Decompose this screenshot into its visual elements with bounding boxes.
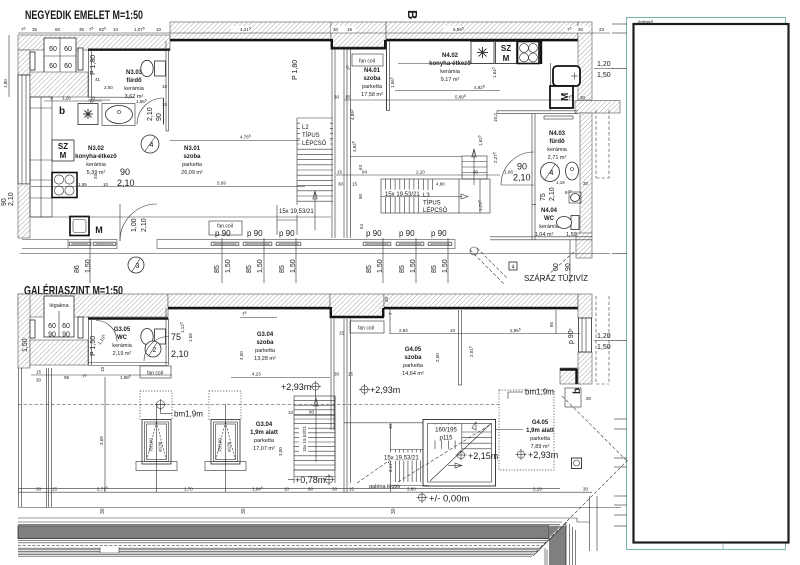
stair G3 treads	[294, 396, 335, 470]
dim verticals upper row	[90, 238, 570, 283]
stair G4 diagonals	[398, 422, 492, 482]
svg-text:bm1,9m: bm1,9m	[525, 388, 554, 397]
svg-text:78/160: 78/160	[218, 438, 223, 452]
svg-text:10,2: 10,2	[493, 113, 498, 122]
svg-text:30: 30	[36, 487, 42, 492]
dim row g405	[384, 296, 580, 334]
svg-text:30: 30	[586, 396, 592, 401]
lower right exterior wall	[578, 294, 592, 318]
window jamb left	[30, 52, 35, 70]
svg-text:p 90: p 90	[279, 229, 295, 238]
svg-text:p 90: p 90	[215, 229, 231, 238]
parapet rail panels	[69, 242, 452, 246]
svg-text:szoba: szoba	[183, 154, 201, 160]
svg-text:60: 60	[48, 323, 56, 330]
svg-text:parketta: parketta	[182, 162, 203, 168]
section circle 3	[128, 257, 144, 273]
top wall band left section	[18, 35, 170, 50]
dashed verticals right margin upper	[596, 110, 609, 178]
svg-text:p 90: p 90	[399, 229, 415, 238]
wc G305 door	[144, 337, 169, 362]
parapet band a	[68, 240, 117, 249]
dim 164 vertical	[491, 67, 497, 78]
svg-text:kerámia: kerámia	[124, 86, 145, 92]
wc N404 basin	[569, 192, 581, 203]
svg-text:60: 60	[64, 63, 72, 70]
svg-text:+2,15m: +2,15m	[468, 451, 498, 461]
svg-text:1,50: 1,50	[442, 259, 449, 273]
bath N303 wc	[141, 60, 166, 76]
svg-text:parketta: parketta	[362, 84, 383, 90]
svg-text:2,00: 2,00	[104, 85, 113, 90]
svg-text:P 1,50: P 1,50	[90, 336, 97, 356]
band mitre joint	[532, 522, 567, 556]
svg-text:3,80: 3,80	[407, 487, 416, 492]
lower right corner wall	[560, 368, 578, 384]
svg-text:5,69: 5,69	[217, 181, 226, 186]
svg-text:78/160: 78/160	[149, 438, 154, 452]
top dim number masks	[231, 26, 608, 33]
titleblock black sheet	[634, 24, 789, 543]
top dim row	[18, 26, 610, 33]
top wall band mid section	[170, 22, 331, 40]
level 293 left	[281, 381, 321, 399]
svg-text:S: S	[50, 96, 53, 101]
galeria diagonal	[357, 460, 390, 483]
svg-text:10: 10	[113, 27, 119, 32]
titleblock teal frame	[627, 18, 786, 550]
title gallery level	[24, 283, 123, 298]
stair G4 riser text	[384, 423, 421, 472]
svg-text:10: 10	[388, 423, 393, 429]
bm19 right label	[508, 388, 554, 400]
svg-text:szoba: szoba	[363, 76, 381, 82]
kitchen N402 counter line	[398, 63, 537, 65]
level mark upper right	[594, 61, 613, 79]
svg-text:1,26: 1,26	[62, 96, 71, 101]
svg-text:1,50: 1,50	[597, 344, 611, 351]
svg-text:30: 30	[384, 296, 389, 302]
dry riser corner leader	[540, 252, 574, 282]
svg-text:30: 30	[583, 487, 589, 492]
svg-text:14,64 m²: 14,64 m²	[402, 371, 424, 377]
top wall band right section	[386, 22, 578, 40]
svg-text:+0,78m: +0,78m	[295, 475, 325, 485]
svg-text:NEGYEDIK EMELET M=1:50: NEGYEDIK EMELET M=1:50	[25, 8, 143, 22]
svg-text:b: b	[59, 106, 65, 117]
svg-text:10: 10	[156, 27, 162, 32]
svg-text:26,09 m²: 26,09 m²	[181, 170, 203, 176]
stair L2 arrow	[313, 191, 317, 230]
left margin door dims	[1, 192, 15, 206]
svg-text:90: 90	[48, 332, 56, 339]
svg-text:30: 30	[36, 378, 42, 383]
stair L2 landing	[277, 205, 297, 235]
wc N404 north wall	[532, 156, 536, 240]
svg-text:LÉPCSŐ: LÉPCSŐ	[423, 207, 448, 214]
svg-text:10: 10	[284, 487, 290, 492]
svg-text:2,10: 2,10	[141, 218, 148, 232]
svg-text:p 905: p 905	[568, 328, 575, 344]
svg-text:TÍPUS: TÍPUS	[302, 132, 320, 139]
headroom dashed line	[18, 404, 499, 406]
svg-text:P 1,80: P 1,80	[90, 55, 97, 75]
svg-text:N4.01: N4.01	[364, 68, 381, 74]
window jamb mid	[78, 48, 83, 70]
svg-text:30: 30	[333, 27, 339, 32]
svg-text:15: 15	[349, 487, 355, 492]
dim line 589	[334, 94, 573, 100]
svg-text:M: M	[503, 54, 510, 63]
svg-text:85: 85	[279, 265, 286, 273]
svg-text:2,10: 2,10	[147, 107, 154, 121]
bath N303 west wall	[89, 50, 92, 97]
stair L2 riser text	[278, 205, 330, 215]
dim line 492	[395, 84, 500, 90]
svg-text:kerámia: kerámia	[112, 343, 133, 349]
lower left wall verticals	[19, 368, 52, 507]
lower top band right section	[384, 294, 578, 308]
dry riser double leader	[470, 248, 508, 284]
svg-text:b: b	[572, 388, 583, 394]
section tick 30 mid	[241, 508, 247, 514]
svg-text:2,50: 2,50	[239, 351, 244, 360]
stair G4 outer box	[423, 420, 496, 487]
svg-text:85: 85	[399, 265, 406, 273]
stair L3 treads	[381, 179, 490, 213]
svg-text:2,19: 2,19	[533, 487, 542, 492]
kitchen N302 label	[75, 146, 117, 176]
bath N403 west wall	[532, 114, 535, 156]
svg-text:15x 19,53/21: 15x 19,53/21	[279, 209, 314, 215]
headroom zone g405	[499, 390, 554, 470]
svg-text:85: 85	[366, 265, 373, 273]
svg-text:+2,93m: +2,93m	[281, 382, 311, 392]
svg-text:90: 90	[517, 162, 527, 172]
room G405 label	[402, 347, 424, 377]
dry riser diagonal lower	[562, 396, 627, 461]
svg-text:1,50: 1,50	[22, 338, 29, 352]
svg-text:3: 3	[136, 263, 140, 270]
dim row above fridge	[44, 96, 102, 102]
dry riser diagonal at bottom	[536, 459, 629, 552]
left wall window strip	[18, 75, 30, 184]
door arc N302	[120, 204, 157, 241]
right wall corner piece	[576, 233, 592, 258]
svg-text:80: 80	[55, 27, 61, 32]
bath N303 washbasin	[102, 104, 135, 126]
svg-text:30: 30	[334, 95, 340, 100]
svg-text:30: 30	[473, 170, 479, 175]
hatched pier below shaft	[30, 72, 88, 97]
dim 156 vertical	[389, 77, 395, 88]
svg-text:ø130: ø130	[158, 441, 163, 452]
svg-text:85: 85	[214, 265, 221, 273]
svg-text:30: 30	[334, 372, 340, 377]
stair G3 landing	[294, 396, 335, 483]
svg-text:N4.02: N4.02	[442, 53, 459, 59]
svg-text:23: 23	[599, 27, 605, 32]
level 215	[456, 450, 499, 462]
svg-text:2,10: 2,10	[416, 170, 425, 175]
svg-text:4,23: 4,23	[252, 372, 261, 377]
svg-text:90: 90	[1, 198, 8, 206]
svg-text:60: 60	[49, 63, 57, 70]
svg-text:10: 10	[162, 102, 168, 107]
band lower edge lines	[18, 540, 548, 545]
svg-text:WC: WC	[117, 335, 128, 341]
section letter B	[405, 10, 420, 19]
stair G4 mid arrow	[448, 463, 462, 468]
svg-text:kerámia: kerámia	[539, 224, 560, 230]
N401 west wall	[386, 41, 390, 111]
shaft box 60/60 upper	[44, 38, 76, 73]
svg-text:60: 60	[49, 46, 57, 53]
titleblock divider tick	[722, 543, 724, 550]
svg-text:N3.01: N3.01	[184, 146, 201, 152]
dim 423 g304	[231, 372, 354, 378]
svg-text:4: 4	[550, 170, 554, 177]
svg-text:35: 35	[32, 27, 38, 32]
wc N404 label	[535, 208, 577, 238]
svg-text:G3.04: G3.04	[257, 332, 274, 338]
wc N404 door dims	[540, 187, 556, 201]
svg-text:90: 90	[120, 167, 130, 177]
lower level mark right	[594, 333, 613, 351]
svg-text:30: 30	[391, 508, 397, 514]
svg-text:63: 63	[358, 164, 363, 170]
gallery edge line upper	[31, 216, 331, 218]
svg-text:WC: WC	[544, 216, 555, 222]
stair L3 arrow	[381, 194, 468, 199]
svg-text:légakna: légakna	[49, 303, 69, 309]
g405 rot dims	[435, 346, 474, 362]
wc N404 south wall	[490, 237, 592, 240]
svg-text:+2,93m: +2,93m	[370, 385, 400, 395]
svg-text:4,80: 4,80	[436, 182, 445, 187]
svg-text:85: 85	[549, 321, 554, 327]
room N301 label	[181, 146, 203, 176]
stair L3 label	[384, 190, 450, 215]
svg-text:L2: L2	[302, 125, 309, 131]
svg-text:1,50: 1,50	[597, 72, 611, 79]
svg-text:1,50: 1,50	[257, 259, 264, 273]
dry riser text	[524, 273, 588, 283]
g304 under label	[250, 422, 278, 452]
roof window 2	[211, 420, 240, 465]
svg-text:kerámia: kerámia	[86, 162, 107, 168]
bath N403 top wall	[497, 111, 578, 114]
fan coil lower right	[339, 321, 384, 336]
room N401 label	[361, 68, 383, 98]
svg-text:M: M	[95, 225, 103, 235]
svg-text:B: B	[405, 10, 420, 19]
p90 labels row	[215, 229, 447, 238]
svg-text:+/- 0,00m: +/- 0,00m	[429, 494, 469, 505]
svg-text:15: 15	[36, 370, 42, 375]
svg-text:bm1,9m: bm1,9m	[174, 410, 203, 419]
svg-text:galéria légtér: galéria légtér	[369, 484, 401, 490]
bath N303 door dims	[147, 107, 163, 121]
svg-text:10: 10	[90, 96, 96, 101]
svg-text:9,17 m²: 9,17 m²	[441, 77, 460, 83]
stair G4 winder treads top	[435, 424, 492, 450]
svg-text:L3: L3	[423, 193, 430, 199]
svg-text:3,00: 3,00	[278, 447, 283, 456]
kitchen N302 counter	[30, 97, 52, 217]
stair G3 riser text	[299, 424, 308, 453]
svg-text:+2,93m: +2,93m	[528, 450, 558, 460]
roof window 1 sill	[136, 462, 177, 471]
svg-text:1,9m alatt: 1,9m alatt	[526, 428, 554, 434]
svg-text:1,00: 1,00	[131, 218, 138, 232]
bath N303 south wall	[88, 97, 134, 100]
svg-text:fan coil: fan coil	[359, 59, 375, 65]
rotated dims stair column	[349, 109, 498, 229]
svg-text:fürdő: fürdő	[549, 139, 565, 145]
svg-text:konyha-étkező: konyha-étkező	[75, 154, 117, 160]
svg-text:60: 60	[62, 323, 70, 330]
stair G4 lower flight	[390, 450, 423, 483]
wc G305 toilet	[141, 329, 166, 345]
svg-text:N3.03: N3.03	[126, 70, 143, 76]
lower top wall band left section	[18, 294, 168, 317]
svg-text:szoba: szoba	[256, 340, 274, 346]
svg-text:N3.02: N3.02	[88, 146, 105, 152]
svg-text:30: 30	[578, 27, 584, 32]
title upper floor	[25, 8, 143, 22]
section circle 4 right	[541, 163, 560, 182]
dry riser pipe symbol	[470, 247, 478, 255]
section circle 2	[145, 341, 161, 357]
svg-text:90: 90	[156, 113, 163, 121]
svg-text:1,50: 1,50	[85, 259, 92, 273]
svg-text:30: 30	[100, 508, 106, 514]
terrace lower strip lines	[18, 548, 547, 565]
svg-text:75: 75	[540, 193, 547, 201]
left wall lower hatch	[18, 184, 30, 238]
lower right wall below window	[578, 352, 592, 384]
stair G4 label	[432, 425, 461, 442]
room N301 dim 476	[170, 134, 331, 141]
svg-text:1,08: 1,08	[504, 170, 513, 175]
fan coil N4	[345, 54, 383, 70]
svg-text:160/195: 160/195	[435, 428, 457, 434]
svg-text:kerámia: kerámia	[440, 69, 461, 75]
bath N403 door dims	[504, 162, 531, 183]
svg-text:fan coil: fan coil	[147, 371, 163, 377]
svg-text:2,10: 2,10	[8, 192, 15, 206]
left margin dim line	[3, 35, 9, 97]
svg-text:p 90: p 90	[247, 229, 263, 238]
kitchen N402 hob	[518, 42, 540, 64]
bm19 left label	[174, 410, 203, 419]
bottom section line upper	[18, 508, 621, 519]
svg-text:1,50: 1,50	[410, 259, 417, 273]
svg-text:35: 35	[79, 27, 85, 32]
kitchen N402 SZ M	[496, 42, 517, 64]
wc G305 door dims	[171, 332, 189, 359]
roof window 2 sill	[205, 462, 246, 471]
svg-text:41: 41	[95, 77, 101, 82]
wall end right of hob	[541, 41, 551, 110]
svg-text:1,78: 1,78	[184, 487, 193, 492]
band corner outer lines	[570, 496, 598, 565]
svg-text:15: 15	[352, 182, 358, 187]
lower party wall verticals	[331, 319, 351, 493]
lower bottom walls	[18, 486, 592, 493]
fan coil upper left unit	[209, 221, 242, 235]
svg-text:LÉPCSŐ: LÉPCSŐ	[302, 140, 327, 147]
bath N301 shared wall	[166, 41, 169, 131]
svg-text:1,19: 1,19	[556, 180, 565, 185]
svg-text:1,9m alatt: 1,9m alatt	[250, 430, 278, 436]
window center lines	[157, 404, 226, 492]
svg-text:p115: p115	[440, 436, 454, 442]
galeria legter text	[369, 484, 401, 490]
stair L2 label	[300, 122, 330, 148]
rot dims g305	[179, 322, 193, 342]
boxed mark 4	[509, 262, 517, 271]
svg-text:86: 86	[74, 265, 81, 273]
lintel over kitchen-bath	[88, 49, 170, 51]
svg-text:13,28 m²: 13,28 m²	[254, 356, 276, 362]
svg-text:30: 30	[332, 487, 338, 492]
terrace dense band	[18, 524, 566, 565]
bath N303 small dims	[89, 77, 168, 107]
left exterior wall upper	[18, 50, 30, 75]
column with drain	[572, 458, 582, 469]
gallery void edge	[344, 423, 423, 492]
svg-text:p 90: p 90	[431, 229, 447, 238]
room G304 label	[254, 332, 276, 362]
svg-text:60: 60	[64, 46, 72, 53]
lower lintel left	[88, 317, 168, 319]
svg-text:2,19 m²: 2,19 m²	[113, 351, 132, 357]
party wall stub right	[575, 101, 620, 114]
svg-text:10: 10	[162, 84, 168, 89]
rotated 85 150 labels	[74, 259, 572, 273]
section tick 30 left	[100, 508, 106, 514]
svg-text:30: 30	[241, 508, 247, 514]
svg-text:15: 15	[337, 170, 343, 175]
svg-text:parketta: parketta	[530, 436, 551, 442]
bathtub N403	[553, 66, 580, 86]
svg-text:N4.04: N4.04	[541, 208, 558, 214]
svg-text:3,69: 3,69	[99, 436, 104, 445]
svg-text:15x 19,53/21: 15x 19,53/21	[302, 425, 307, 452]
svg-text:90: 90	[565, 263, 572, 271]
svg-text:30: 30	[583, 181, 589, 186]
svg-text:4: 4	[150, 142, 154, 149]
svg-text:1,80: 1,80	[3, 79, 8, 88]
section tick 30 right	[391, 508, 397, 514]
svg-text:15: 15	[339, 331, 345, 336]
svg-text:2,84: 2,84	[399, 328, 408, 333]
svg-text:85: 85	[246, 265, 253, 273]
svg-text:2,10: 2,10	[513, 173, 531, 183]
stair G3 arrow	[278, 398, 335, 462]
bath N403 door	[501, 152, 534, 185]
svg-text:15x 19,53/21: 15x 19,53/21	[385, 192, 420, 198]
svg-text:G4.05: G4.05	[532, 420, 549, 426]
svg-text:G4.05: G4.05	[405, 347, 422, 353]
svg-text:85: 85	[431, 265, 438, 273]
window shaft dotted 2	[209, 391, 241, 420]
level 078	[288, 474, 335, 485]
kitchen sink M	[70, 217, 103, 236]
svg-text:fan coil: fan coil	[358, 326, 374, 332]
